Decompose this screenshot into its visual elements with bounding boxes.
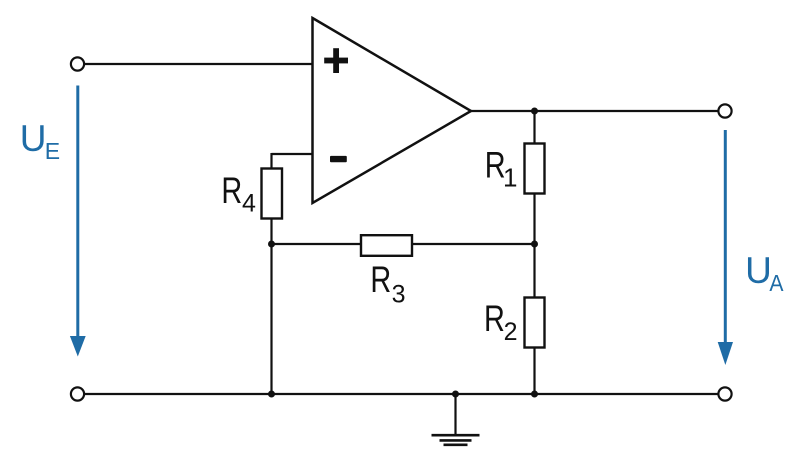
terminal: input bottom-left [71, 387, 84, 400]
arrow U_A voltage (blue, down) [718, 130, 733, 365]
label U_A [745, 250, 783, 297]
node: ground junction [452, 391, 459, 398]
svg-text:3: 3 [392, 280, 406, 308]
op-amp plus input symbol [324, 48, 348, 73]
wire: R4 bottom down to bottom rail [270, 218, 272, 394]
svg-text:4: 4 [242, 190, 256, 218]
resistor R2 body [525, 298, 545, 348]
node: output junction [531, 108, 538, 115]
ground symbol [432, 435, 480, 445]
op-amp U1 triangle [313, 18, 472, 203]
wire: inverting input horizontal [272, 153, 313, 155]
wire: R1 bottom to R2 top [533, 193, 535, 298]
wire: + input from terminal to op-amp [85, 63, 313, 65]
svg-text:R: R [370, 259, 391, 300]
label R3 [370, 259, 405, 308]
label R1 [485, 145, 518, 193]
wire: ground stem [454, 394, 456, 435]
svg-text:2: 2 [504, 318, 518, 346]
wire: inverting input down to R4 [270, 153, 272, 170]
terminal: output bottom-right [718, 387, 731, 400]
svg-text:U: U [745, 250, 772, 291]
svg-text:U: U [20, 118, 47, 159]
node: R4/R3 junction [268, 241, 275, 248]
svg-text:A: A [769, 270, 783, 296]
svg-text:1: 1 [503, 163, 517, 193]
wire: bottom rail [85, 393, 718, 395]
wire: R2 bottom to bottom rail [533, 347, 535, 394]
label R4 [221, 171, 256, 218]
svg-text:R: R [221, 171, 242, 212]
op-amp minus input symbol [330, 156, 347, 162]
wire: output node down to R1 [533, 111, 535, 144]
resistor R3 body [361, 235, 412, 256]
node: bottom rail R4 branch [268, 391, 275, 398]
svg-text:E: E [45, 138, 60, 164]
arrow U_E voltage (blue, down) [70, 86, 86, 357]
label R2 [484, 299, 518, 346]
svg-text:R: R [484, 299, 505, 340]
terminal: input top-left [71, 57, 84, 70]
terminal: output top-right [718, 104, 731, 117]
node: R1/R2/R3 junction [531, 241, 538, 248]
resistor R1 body [525, 144, 545, 194]
node: bottom rail R2 branch [531, 391, 538, 398]
wire: op-amp output to right terminal [471, 110, 718, 112]
wire: feedback middle wire through R3 [272, 243, 535, 245]
label U_E [20, 118, 60, 164]
resistor R4 body [262, 169, 283, 219]
